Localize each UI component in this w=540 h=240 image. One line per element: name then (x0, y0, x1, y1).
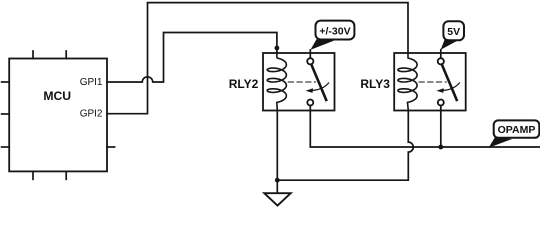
wire RLY2 switch to OPAMP bus (310, 106, 540, 148)
svg-text:GPI1: GPI1 (80, 77, 103, 88)
RLY2 coil L (267, 53, 286, 111)
relay RLY2 box (263, 53, 335, 111)
svg-text:RLY3: RLY3 (360, 77, 390, 91)
junction dot ground node (275, 178, 280, 183)
svg-text:RLY2: RLY2 (229, 77, 259, 91)
RLY2 switch arm (311, 65, 326, 100)
svg-text:MCU: MCU (43, 89, 71, 103)
net flag OPAMP pointer (489, 137, 513, 148)
RLY2 top contact pin stub (309, 50, 311, 58)
net flag +/-30V box (316, 21, 355, 40)
svg-text:5V: 5V (447, 26, 460, 38)
net flag 5V pointer (441, 40, 457, 50)
MCU bottom pin 1 (32, 171, 34, 179)
RLY2 bottom contact circle (307, 100, 313, 106)
svg-text:GPI2: GPI2 (80, 109, 103, 120)
RLY2 arrow head (306, 88, 313, 93)
RLY3 bottom contact circle (438, 100, 444, 106)
svg-text:OPAMP: OPAMP (498, 124, 536, 136)
RLY3 top contact circle (438, 58, 444, 64)
RLY3 mechanical link (dashed) (419, 81, 446, 83)
MCU top pin 1 (32, 51, 34, 59)
net flag OPAMP box (494, 120, 540, 137)
RLY3 arrow head (436, 88, 443, 93)
RLY3 switch arm (442, 65, 457, 100)
RLY2 top contact circle (307, 58, 313, 64)
MCU right pin 3 (unconnected) (107, 146, 115, 148)
MCU left pin 2 (2, 113, 10, 115)
MCU U1 box (9, 59, 107, 172)
wire GPI2 to RLY3 coil (107, 3, 408, 114)
MCU bottom pin 2 (65, 171, 67, 179)
wire RLY2 coil bottom to ground (276, 111, 278, 193)
wire GPI1 to RLY2 coil (hop over GPI2 wire) (107, 33, 277, 83)
net flag 5V box (443, 21, 464, 40)
MCU left pin 1 (2, 81, 10, 83)
junction dot contact bus / RLY3 switch (438, 145, 443, 150)
relay RLY3 box (394, 53, 466, 111)
MCU left pin 3 (2, 146, 10, 148)
ground symbol (264, 193, 290, 205)
wire ground bus to RLY3 coil bottom (hop over contact bus) (277, 111, 413, 181)
RLY2 actuation arrow (309, 83, 329, 91)
RLY3 actuation arrow (440, 83, 460, 91)
wire RLY3 switch bottom pin (440, 106, 442, 148)
MCU top pin 2 (65, 51, 67, 59)
net flag +/-30V pointer (310, 39, 334, 50)
junction dot RLY2 coil pin (275, 46, 280, 51)
svg-text:+/-30V: +/-30V (319, 25, 350, 37)
RLY2 mechanical link (dashed) (288, 81, 315, 83)
RLY3 top contact pin stub (440, 50, 442, 58)
RLY3 coil L (398, 53, 417, 111)
